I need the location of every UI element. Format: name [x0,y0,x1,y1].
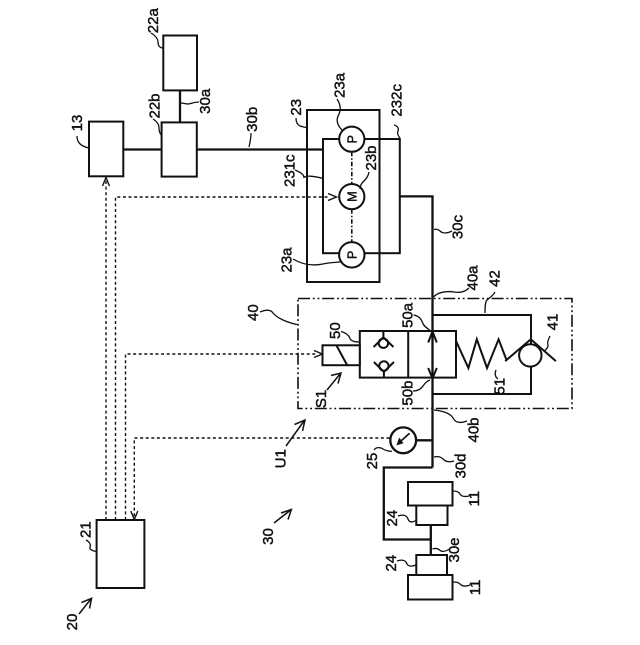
check valve 41 seat [505,339,556,361]
pointer arrows [79,373,341,614]
leader 23 [296,118,307,128]
leader 50a [414,315,430,330]
box 24 upper [416,506,447,526]
box 11 upper [408,482,453,506]
svg-text:42: 42 [486,270,503,287]
leader 40a [434,288,470,297]
svg-text:20: 20 [64,614,81,631]
wire 30d lower run [384,468,433,540]
wire 23 outlet [400,196,432,467]
leader 23b [360,172,369,189]
arrowhead into 21 [131,511,138,520]
leader 232c [394,125,400,138]
svg-text:40: 40 [245,304,262,321]
wire gauge stub [416,439,433,441]
box 11 lower [408,575,453,600]
arrowhead into 13 [103,178,110,187]
pump unit outer box 23 [307,110,380,282]
check symbol top: seat [374,337,394,347]
svg-text:50a: 50a [400,302,417,328]
leader 30a [181,102,199,104]
box 22a [163,36,197,91]
gauge 25 circle [390,427,416,453]
valve position divider [407,331,409,378]
check valve 41 circle [519,344,541,366]
leader 24 lower [397,560,416,566]
sensor line from gauge 25 to 21 [134,438,389,520]
leader 11 lower [453,582,470,586]
control line to 13 [105,181,107,520]
arrowhead into M [328,194,337,201]
wire 30a (22a to 22b) [179,90,181,122]
leader 23a bottom [293,259,341,265]
box 24 lower [416,555,447,575]
svg-text:P: P [345,251,359,259]
svg-text:50b: 50b [400,381,417,406]
svg-text:40b: 40b [466,417,483,442]
flow path arrow 50b [428,368,437,378]
svg-text:41: 41 [545,314,562,331]
box 13 [89,122,123,177]
svg-text:30b: 30b [244,107,261,132]
solenoid diagonal [337,346,348,365]
leader 51 [495,370,498,379]
arrow 20 [79,600,91,615]
svg-text:21: 21 [78,521,95,538]
wire 30b (22b to 23) [197,148,323,150]
leader 13 [77,136,89,148]
pump unit inner box 232c/231c [323,139,400,253]
svg-text:23: 23 [288,99,305,116]
leader 41 [545,336,551,351]
svg-text:P: P [345,135,359,143]
svg-text:13: 13 [69,115,86,132]
leader 30d [434,457,454,462]
solenoid 50/S1 [323,345,360,365]
leader 30b [249,133,251,147]
check symbol bottom: seat [374,362,394,372]
svg-text:40a: 40a [465,265,482,291]
wire through valve right cell [431,331,433,378]
control line to motor 23b [116,197,331,520]
box 42 (spring/check housing) [433,315,532,394]
svg-text:23a: 23a [279,247,296,273]
svg-text:231c: 231c [281,154,298,187]
svg-text:232c: 232c [389,84,406,117]
control line to solenoid S1 [126,354,317,520]
svg-text:30c: 30c [450,214,467,239]
leader 22a [151,33,163,48]
leader 11 upper [453,491,469,496]
svg-text:22b: 22b [147,93,164,118]
spring 51 [456,339,507,368]
check symbol bottom: stub [383,372,385,378]
wire 30e [430,525,432,555]
check symbol top: ball [379,339,388,348]
leader 21 [86,540,97,552]
leader 50b [413,380,430,391]
check symbol top: stub [382,331,384,337]
box 21 (controller) [97,520,145,588]
svg-text:11: 11 [466,491,483,507]
wire 13 to 22b [123,148,161,150]
dashed enclosure 40 (valve unit U1) [298,299,572,409]
leader 40b [434,410,467,422]
svg-text:25: 25 [364,453,381,470]
box 22b [162,122,197,176]
svg-text:M: M [345,191,359,201]
svg-text:30a: 30a [197,88,214,114]
leaders [77,33,550,586]
check symbol bottom: ball [379,361,388,370]
svg-text:24: 24 [383,555,400,572]
arrowhead into solenoid [314,351,322,358]
svg-text:22a: 22a [145,8,162,34]
arrow S1 [327,374,340,390]
leader 24 upper [398,515,416,522]
svg-text:S1: S1 [313,390,330,408]
text labels (rotated) [64,8,562,631]
motor shaft dash-dot [351,152,353,184]
svg-text:51: 51 [491,378,508,395]
leader 23a top [337,99,342,130]
pump 23a bottom circle [339,242,364,267]
valve 50 body [360,331,456,378]
svg-text:24: 24 [384,510,401,527]
leader 40 [260,310,297,324]
svg-text:U1: U1 [273,449,290,468]
svg-text:23b: 23b [363,145,380,170]
leader 22b [153,119,162,136]
svg-text:30d: 30d [453,453,470,478]
arrow U1 [286,421,304,446]
gauge needle [400,433,410,442]
leader 42 [485,292,495,313]
motor 23b circle [339,184,364,209]
svg-text:11: 11 [467,580,484,596]
leader 231c [295,170,323,179]
leader 50 [341,332,360,343]
svg-text:23a: 23a [331,72,348,98]
svg-text:30: 30 [260,528,277,545]
leader 25 [374,448,392,452]
svg-text:50: 50 [327,322,344,339]
leader 30e [433,548,450,551]
leader 30c [434,229,452,233]
arrow 30 [274,511,290,524]
pump 23a top circle [339,127,364,152]
svg-text:30e: 30e [446,537,463,562]
flow path arrows 50a [428,332,437,343]
